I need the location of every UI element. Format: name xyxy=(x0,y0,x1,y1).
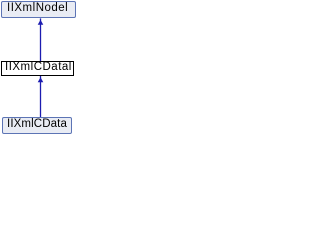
arrowhead 2 xyxy=(38,77,44,82)
class box IIXmlNodel (ancestor) xyxy=(1,1,76,18)
class box IIXmlCDatal (current class) xyxy=(1,61,74,76)
label IIXmlNodel xyxy=(7,2,68,14)
label IIXmlCData xyxy=(7,118,67,130)
class box IIXmlCData (descendant) xyxy=(2,117,72,134)
inheritance arrow 1 (from IIXmlCDatal up to IIXmlNodel) xyxy=(0,0,77,136)
arrowhead 1 xyxy=(38,20,44,25)
wire arrow1 stem xyxy=(40,18,42,61)
wire arrow2 stem xyxy=(40,76,42,118)
label IIXmlCDatal xyxy=(5,61,72,73)
